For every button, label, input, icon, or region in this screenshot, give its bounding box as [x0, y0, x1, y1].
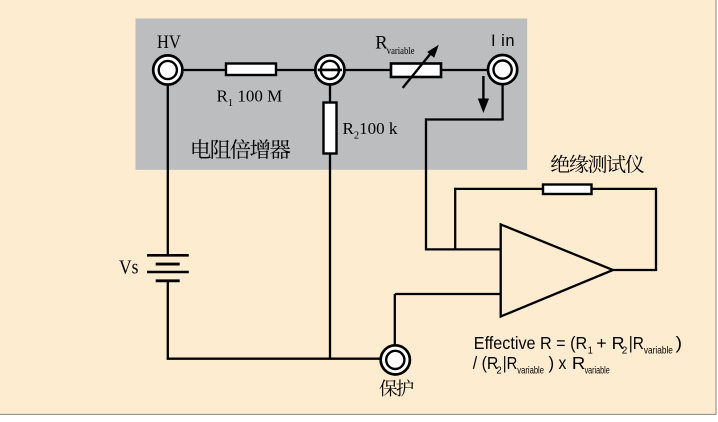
svg-text:Effective R = (R: Effective R = (R: [474, 333, 587, 353]
svg-text:variable: variable: [644, 346, 673, 357]
svg-text:+ R: + R: [596, 333, 624, 353]
svg-text:): ): [676, 333, 682, 353]
svg-text:variable: variable: [387, 46, 415, 57]
svg-text:/ (R: / (R: [473, 353, 499, 373]
svg-text:R: R: [572, 353, 585, 373]
svg-text:): ): [549, 353, 555, 373]
svg-text:|R: |R: [629, 333, 644, 353]
svg-text:variable: variable: [585, 366, 610, 377]
svg-text:|R: |R: [503, 353, 518, 373]
svg-text:x: x: [559, 353, 567, 373]
svg-text:HV: HV: [157, 33, 181, 53]
svg-text:1: 1: [588, 346, 594, 357]
svg-text:2: 2: [622, 346, 628, 357]
svg-text:I in: I in: [491, 32, 515, 50]
svg-text:2: 2: [496, 366, 502, 377]
svg-text:Vs: Vs: [119, 257, 139, 279]
svg-text:variable: variable: [517, 366, 544, 377]
